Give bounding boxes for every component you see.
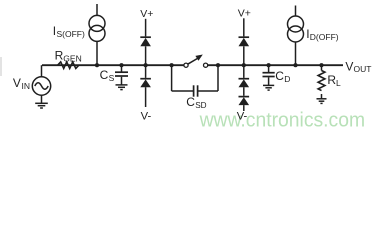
svg-text:V+: V+ — [140, 8, 153, 20]
wire V+ lead right clamp — [243, 18, 245, 36]
switch S1 contact circles — [184, 63, 188, 67]
wire main bus right of switch — [208, 64, 343, 66]
svg-text:OUT: OUT — [354, 64, 372, 74]
wire RL to ground — [321, 94, 323, 98]
wire CSD bottom right horizontal — [198, 90, 218, 92]
wire ID(OFF) to bus — [295, 42, 297, 65]
ground below CD — [263, 84, 274, 86]
svg-text:C: C — [275, 69, 284, 83]
node junction dot IS — [95, 63, 99, 67]
diode D3 triangle — [239, 38, 250, 46]
resistor RL zigzag — [318, 71, 325, 91]
svg-text:S(OFF): S(OFF) — [57, 29, 85, 39]
wire IS(OFF) to bus — [96, 41, 98, 65]
node junction dot CSD right — [216, 63, 220, 67]
svg-text:V-: V- — [237, 111, 248, 123]
wire VIN to ground — [41, 95, 43, 103]
capacitor CS plates — [115, 71, 128, 73]
wire D5 to V- label — [243, 105, 245, 111]
capacitor CD lead — [268, 65, 270, 72]
wire ID(OFF) top lead — [295, 6, 297, 17]
wire D4 to D5 — [243, 87, 245, 96]
current source ID(OFF) circles — [288, 16, 304, 32]
svg-text:GEN: GEN — [63, 54, 81, 64]
svg-text:D(OFF): D(OFF) — [310, 32, 339, 42]
capacitor CS lead — [121, 65, 123, 71]
wire bus to D4 — [243, 65, 245, 78]
diode D4 (cathode bar) — [239, 78, 250, 80]
svg-text:V+: V+ — [238, 7, 251, 19]
svg-text:V: V — [345, 59, 353, 73]
diode D5 triangle — [239, 97, 250, 105]
svg-text:S: S — [109, 73, 115, 83]
diode D2 triangle — [140, 79, 151, 87]
diode D2 to V- (cathode bar) — [140, 78, 151, 80]
current source IS(OFF) circles — [89, 15, 105, 31]
ground below RL — [317, 98, 327, 100]
ground below VIN — [35, 102, 48, 104]
scan smudge left edge — [0, 57, 2, 76]
wire CSD left vertical — [171, 65, 173, 91]
svg-text:V: V — [13, 76, 21, 90]
wire CS to ground — [121, 77, 123, 85]
svg-text:C: C — [100, 68, 109, 82]
diode D5 to V- (cathode bar) — [239, 96, 250, 98]
svg-text:L: L — [336, 78, 341, 88]
wire CD to ground — [268, 77, 270, 85]
wire V_IN riser — [41, 65, 43, 77]
wire CSD right vertical — [217, 65, 219, 91]
svg-text:V-: V- — [141, 111, 152, 123]
node junction dot left clamp — [144, 63, 148, 67]
svg-text:R: R — [55, 48, 64, 62]
wire D3 to bus — [243, 46, 245, 65]
node junction dot ID — [293, 63, 297, 67]
resistor RL lead — [321, 65, 323, 70]
switch S1 lever — [188, 58, 198, 64]
switch S1 arrowhead — [195, 55, 202, 61]
wire IS(OFF) top lead — [96, 4, 98, 15]
svg-text:IN: IN — [22, 81, 31, 91]
sine symbol inside VIN — [35, 83, 48, 89]
wire bus to D2 — [145, 65, 147, 78]
node junction dot CD — [267, 63, 271, 67]
wire D2 to V- label — [145, 87, 147, 107]
wire V+ lead left clamp — [145, 19, 147, 37]
source VIN circle — [32, 77, 50, 95]
diode D1 to V+ (cathode bar) — [140, 36, 151, 38]
capacitor CD plates — [263, 72, 275, 74]
wire main bus left of switch — [42, 64, 184, 66]
node junction dot CS — [119, 63, 123, 67]
node junction dot RL — [319, 63, 323, 67]
node junction dot CSD left — [170, 63, 174, 67]
diode D1 triangle — [140, 38, 151, 46]
wire CSD bottom left horizontal — [172, 90, 194, 92]
svg-text:C: C — [186, 95, 195, 109]
svg-text:D: D — [284, 74, 290, 84]
wire D1 to bus — [145, 46, 147, 65]
ground below CS — [116, 84, 128, 86]
resistor RGEN zigzag — [58, 62, 79, 69]
diode D3 to V+ (cathode bar) — [239, 36, 250, 38]
node junction dot right clamp — [242, 63, 246, 67]
svg-text:SD: SD — [195, 101, 206, 110]
diode D4 triangle — [239, 79, 250, 87]
svg-text:www.cntronics.com: www.cntronics.com — [199, 109, 365, 131]
capacitor CSD plates — [193, 85, 195, 96]
